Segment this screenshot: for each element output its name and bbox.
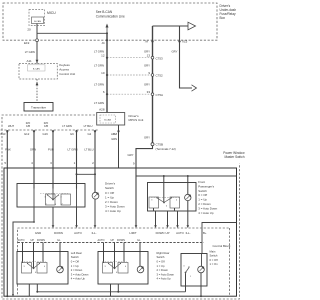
- svg-text:20: 20: [27, 28, 31, 32]
- svg-text:GRY: GRY: [171, 50, 177, 54]
- svg-text:Switch: Switch: [210, 254, 218, 258]
- svg-text:E19: E19: [24, 41, 30, 45]
- svg-text:LT BLU: LT BLU: [84, 124, 93, 128]
- svg-text:4 = Auto Up: 4 = Auto Up: [157, 277, 172, 281]
- svg-text:4 = Auto Up: 4 = Auto Up: [105, 209, 121, 213]
- svg-text:3: 3: [151, 200, 152, 202]
- svg-text:C753: C753: [156, 56, 164, 60]
- svg-text:AUTO: AUTO: [98, 239, 105, 242]
- svg-text:DOWN: DOWN: [37, 239, 45, 242]
- svg-text:AUTO: AUTO: [176, 231, 185, 235]
- svg-text:Control Block: Control Block: [213, 244, 231, 248]
- svg-text:GRY: GRY: [144, 64, 150, 68]
- svg-text:0 = Off: 0 = Off: [157, 260, 165, 264]
- svg-text:J4: J4: [101, 41, 105, 45]
- svg-text:C/B: C/B: [26, 125, 31, 128]
- svg-text:GRY: GRY: [127, 153, 133, 157]
- svg-text:G16: G16: [43, 132, 49, 136]
- svg-text:3: 3: [50, 161, 52, 165]
- svg-text:Transmitter: Transmitter: [31, 105, 46, 109]
- svg-text:DOWN: DOWN: [156, 231, 165, 235]
- svg-text:4 = Auto Up: 4 = Auto Up: [71, 277, 86, 281]
- svg-text:1: 1: [45, 204, 46, 206]
- svg-text:3 = Auto Down: 3 = Auto Down: [157, 272, 175, 276]
- svg-text:GRN: GRN: [111, 137, 117, 141]
- svg-text:LT GRN: LT GRN: [94, 83, 104, 87]
- svg-text:Front: Front: [198, 180, 205, 184]
- svg-text:4: 4: [176, 200, 177, 202]
- svg-text:33: 33: [147, 90, 151, 94]
- svg-text:LT GRN: LT GRN: [25, 50, 35, 54]
- svg-text:C752: C752: [156, 74, 164, 78]
- svg-text:5: 5: [4, 161, 6, 165]
- svg-text:WHT: WHT: [8, 124, 14, 128]
- svg-text:Driver's: Driver's: [105, 182, 116, 186]
- svg-text:C/B: C/B: [44, 125, 49, 128]
- svg-text:MICU: MICU: [47, 11, 56, 15]
- svg-text:Control Unit: Control Unit: [59, 72, 75, 76]
- svg-text:UP: UP: [31, 239, 35, 242]
- svg-text:UP: UP: [111, 239, 115, 242]
- svg-text:UP: UP: [166, 231, 170, 235]
- svg-text:0 = Off: 0 = Off: [105, 191, 114, 195]
- svg-text:ORN: ORN: [30, 148, 36, 152]
- svg-text:Access: Access: [59, 68, 69, 72]
- svg-text:GND: GND: [35, 231, 41, 235]
- svg-text:DOWN: DOWN: [117, 239, 125, 242]
- svg-text:2: 2: [61, 204, 62, 206]
- svg-text:1: 1: [74, 161, 76, 165]
- svg-text:DOWN: DOWN: [54, 231, 63, 235]
- svg-text:B13: B13: [1, 132, 6, 136]
- svg-text:1 = Up: 1 = Up: [157, 264, 165, 268]
- svg-text:Keyless: Keyless: [59, 63, 70, 67]
- svg-text:Power Window: Power Window: [223, 151, 245, 155]
- svg-text:A28: A28: [99, 108, 105, 112]
- svg-text:9: 9: [148, 71, 150, 75]
- svg-text:3: 3: [44, 197, 45, 199]
- svg-text:G12: G12: [24, 132, 30, 136]
- svg-text:Master Switch: Master Switch: [224, 155, 244, 159]
- svg-text:X15: X15: [182, 40, 188, 44]
- svg-text:6: 6: [103, 90, 105, 94]
- svg-text:3: 3: [104, 266, 105, 268]
- svg-text:13: 13: [147, 54, 151, 58]
- svg-text:G2: G2: [88, 132, 92, 136]
- svg-text:3 = Auto Down: 3 = Auto Down: [198, 206, 217, 210]
- svg-text:7A: 7A: [144, 40, 148, 44]
- svg-text:2 = Down: 2 = Down: [198, 202, 211, 206]
- svg-text:2 = Down: 2 = Down: [105, 200, 118, 204]
- svg-text:LT GRN: LT GRN: [62, 124, 72, 128]
- svg-text:Communication Line: Communication Line: [96, 15, 125, 19]
- svg-text:0: 0: [35, 272, 36, 274]
- svg-text:9: 9: [133, 162, 135, 166]
- svg-text:Main: Main: [210, 249, 216, 253]
- svg-text:1 = Up: 1 = Up: [198, 198, 207, 202]
- svg-text:Passenger's: Passenger's: [198, 184, 214, 188]
- svg-text:B-CAN: B-CAN: [104, 118, 111, 121]
- svg-text:Switch: Switch: [71, 255, 79, 259]
- svg-text:1 = On: 1 = On: [210, 262, 219, 266]
- svg-text:B+: B+: [203, 231, 207, 235]
- svg-text:0: 0: [183, 266, 184, 268]
- svg-text:Switch: Switch: [157, 255, 165, 259]
- svg-text:G9: G9: [70, 132, 74, 136]
- svg-text:3 = Auto Down: 3 = Auto Down: [105, 205, 125, 209]
- svg-text:C75A: C75A: [156, 93, 164, 97]
- svg-text:1 = Up: 1 = Up: [71, 264, 79, 268]
- svg-text:0: 0: [55, 204, 56, 206]
- svg-text:4 = Auto Up: 4 = Auto Up: [198, 211, 214, 215]
- svg-text:12: 12: [101, 54, 105, 58]
- svg-text:ILL-: ILL-: [92, 231, 97, 235]
- svg-text:LT GRN: LT GRN: [94, 101, 104, 105]
- svg-text:MPCS Unit: MPCS Unit: [129, 118, 144, 122]
- svg-text:3: 3: [23, 266, 24, 268]
- svg-text:LT BLU: LT BLU: [84, 148, 93, 152]
- svg-text:2 = Down: 2 = Down: [71, 268, 83, 272]
- svg-text:LIMIT: LIMIT: [129, 231, 136, 235]
- svg-text:0 = Off: 0 = Off: [71, 260, 79, 264]
- svg-text:B-CAN: B-CAN: [34, 20, 41, 23]
- svg-text:4: 4: [125, 266, 126, 268]
- svg-text:4: 4: [44, 266, 45, 268]
- svg-text:GRY: GRY: [144, 136, 150, 140]
- svg-text:3 = Auto Down: 3 = Auto Down: [71, 272, 89, 276]
- svg-text:0 = Off: 0 = Off: [198, 193, 207, 197]
- svg-text:0 = Off: 0 = Off: [210, 258, 218, 262]
- svg-text:Right Rear: Right Rear: [157, 251, 170, 255]
- svg-text:2 = Down: 2 = Down: [157, 268, 169, 272]
- svg-text:2: 2: [92, 161, 94, 165]
- svg-text:A11: A11: [27, 59, 32, 63]
- svg-text:10: 10: [101, 71, 105, 75]
- svg-text:1: 1: [190, 276, 191, 278]
- svg-text:Box: Box: [220, 16, 226, 20]
- svg-text:AUTO: AUTO: [18, 239, 25, 242]
- svg-text:4: 4: [60, 197, 61, 199]
- svg-text:Left Rear: Left Rear: [71, 251, 82, 255]
- svg-text:ILL-: ILL-: [186, 231, 191, 235]
- svg-text:GRY: GRY: [144, 83, 150, 87]
- svg-text:A8: A8: [111, 132, 115, 136]
- svg-text:AUTO: AUTO: [74, 231, 83, 235]
- svg-text:PNK: PNK: [5, 148, 11, 152]
- svg-text:Switch: Switch: [105, 186, 114, 190]
- svg-text:LT GRN: LT GRN: [94, 64, 104, 68]
- svg-text:ILL: ILL: [137, 239, 141, 242]
- svg-text:0: 0: [166, 206, 167, 208]
- svg-text:(Terminals 7-12): (Terminals 7-12): [156, 147, 176, 151]
- svg-text:1 = Up: 1 = Up: [105, 195, 114, 199]
- svg-text:B-CAN: B-CAN: [33, 67, 40, 70]
- svg-text:4: 4: [31, 161, 33, 165]
- svg-text:Switch: Switch: [198, 189, 207, 193]
- svg-text:ILL: ILL: [57, 239, 61, 242]
- svg-text:0: 0: [116, 272, 117, 274]
